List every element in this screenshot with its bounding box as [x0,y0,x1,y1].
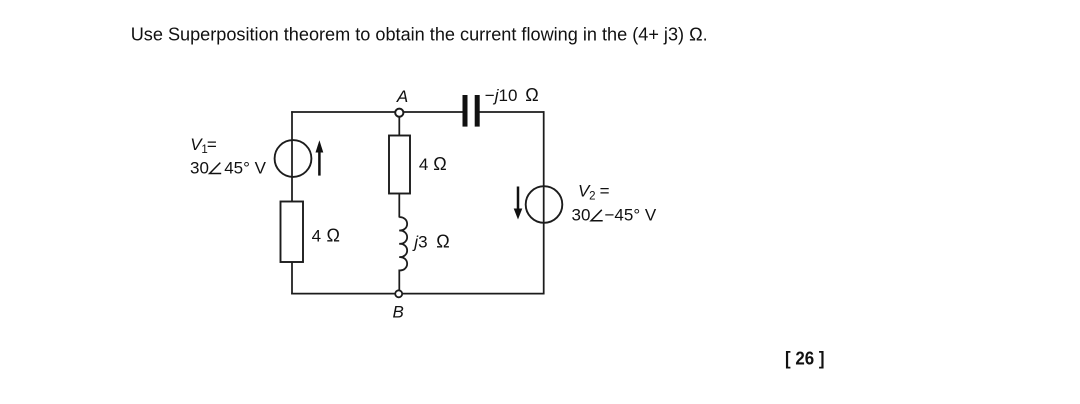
V2 arrow (down) [514,187,523,220]
resistor 4ohm middle [389,136,410,194]
svg-text:4Ω: 4Ω [419,154,447,174]
wire right branch [543,111,545,294]
svg-text:30: 30 [190,158,209,177]
svg-text:45° V: 45° V [224,158,266,177]
V1 arrow (up) [316,140,324,175]
svg-text:−45° V: −45° V [605,206,657,225]
svg-text:[ 26 ]: [ 26 ] [785,348,825,368]
node B [395,290,402,297]
wire middle branch upper [398,117,400,137]
wire middle branch lower [398,270,400,292]
wire middle branch between resistor and inductor [398,193,400,218]
wire bottom [291,293,544,295]
resistor 4ohm left [281,202,304,263]
V2 angle symbol [591,210,603,221]
svg-text:30: 30 [572,206,591,225]
svg-text:A: A [396,87,408,106]
V1 angle symbol [210,163,222,174]
inductor j3 [399,217,407,270]
svg-text:4Ω: 4Ω [312,225,340,245]
svg-text:−j10Ω: −j10Ω [485,85,539,105]
svg-text:B: B [393,303,404,322]
wire top right (capacitor right plate to right corner) [479,111,545,113]
capacitor -j10 [465,95,477,127]
node A [395,109,403,117]
svg-text:Use Superposition theorem to o: Use Superposition theorem to obtain the … [131,24,708,44]
voltage source V1 [275,140,312,177]
wire left branch [291,111,293,294]
wire top (node A to capacitor left plate, and left corner run) [291,111,463,113]
voltage source V2 [526,186,563,223]
